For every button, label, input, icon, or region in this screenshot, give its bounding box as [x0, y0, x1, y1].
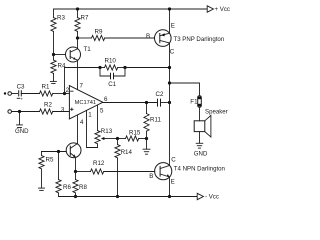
ground at input 2: [15, 112, 29, 136]
svg-text:E: E: [171, 178, 175, 185]
node junction R3/R4/T1 base: [52, 53, 55, 56]
svg-text:3: 3: [61, 106, 65, 113]
wire C3 to R1: [21, 93, 39, 95]
svg-text:T3 PNP Darlington: T3 PNP Darlington: [174, 36, 225, 43]
wire input 2: [12, 111, 40, 113]
svg-text:R15: R15: [129, 129, 141, 136]
node junction input2/gnd: [18, 110, 21, 113]
svg-text:R5: R5: [46, 157, 54, 164]
svg-text:- Vcc: - Vcc: [205, 194, 219, 201]
wire T2 emitter down: [75, 157, 77, 171]
transistor T4: [149, 156, 225, 185]
svg-text:R10: R10: [105, 58, 117, 65]
node junction rail/speaker branch: [168, 81, 171, 84]
svg-text:R2: R2: [44, 101, 52, 108]
wire T3 collector down rail: [169, 43, 171, 166]
power -Vcc arrow: [197, 193, 219, 200]
node junction R13 wiper/R14/R15: [116, 137, 119, 140]
svg-text:C: C: [171, 156, 176, 163]
svg-text:7: 7: [80, 82, 84, 89]
wire bottom supply rail: [59, 196, 197, 198]
svg-text:C2: C2: [156, 91, 164, 98]
resistor R12: [76, 160, 155, 174]
wire T3 emitter to rail: [169, 9, 171, 33]
ground at speaker: [194, 143, 208, 157]
svg-text:+ Vcc: + Vcc: [215, 6, 230, 13]
svg-text:MC1741: MC1741: [75, 100, 97, 106]
svg-text:R7: R7: [81, 14, 89, 21]
ground at R4: [50, 81, 56, 83]
svg-text:+: +: [20, 97, 23, 102]
svg-text:C3: C3: [17, 83, 25, 90]
resistor R8: [73, 172, 88, 197]
svg-text:R11: R11: [150, 117, 161, 124]
node junction T2 emitter/R8/R12: [74, 170, 77, 173]
svg-text:R12: R12: [93, 160, 105, 167]
node junction output/R11: [145, 101, 148, 104]
svg-text:T4 NPN Darlington: T4 NPN Darlington: [174, 165, 225, 172]
wire T2 base: [42, 151, 67, 153]
node junction rail/T3: [168, 7, 171, 10]
resistor R9: [78, 29, 155, 41]
wire top supply rail: [54, 8, 207, 10]
wire to pin 2: [65, 93, 70, 95]
svg-text:C1: C1: [108, 81, 116, 88]
resistor R7: [75, 7, 89, 38]
transistor T1: [54, 38, 92, 90]
node junction R7/T1/R9: [76, 36, 79, 39]
node junction rail/C2: [168, 101, 171, 104]
svg-text:F1: F1: [190, 99, 198, 106]
resistor R11: [144, 103, 162, 139]
wire fuse to speaker: [199, 107, 201, 121]
resistor R15: [118, 129, 147, 141]
op-amp U1 MC1741: [61, 82, 108, 125]
node junction pin2/feedback: [63, 92, 66, 95]
node junction bottom rail/T4: [168, 195, 171, 198]
node junction bottom rail/R8: [74, 195, 77, 198]
svg-text:R3: R3: [57, 14, 65, 21]
svg-text:T1: T1: [84, 46, 92, 53]
speaker SP1: [194, 108, 228, 137]
power +Vcc arrow: [207, 6, 230, 13]
node input terminal dot: [4, 92, 6, 94]
svg-text:E: E: [171, 23, 175, 30]
resistor R5: [39, 152, 54, 188]
capacitor C1 parallel branch: [100, 68, 125, 88]
node junction R10 left: [98, 66, 101, 69]
svg-text:C: C: [170, 49, 175, 56]
wire C2 to rail: [161, 102, 170, 104]
fuse F1: [190, 96, 201, 107]
node input terminal: [8, 92, 12, 96]
svg-text:GND: GND: [194, 150, 208, 157]
wire op-amp output: [103, 102, 158, 104]
wire speaker to ground: [199, 132, 201, 143]
svg-text:2: 2: [66, 87, 70, 94]
wire pin1 down: [87, 110, 98, 147]
capacitor C2: [156, 91, 164, 107]
svg-text:R13: R13: [101, 128, 113, 135]
node junction R10 right: [123, 66, 126, 69]
svg-text:R14: R14: [121, 149, 133, 156]
svg-text:5: 5: [100, 107, 104, 114]
resistor R14: [115, 139, 133, 197]
svg-text:R1: R1: [42, 84, 50, 91]
ground at R11: [143, 139, 150, 155]
svg-text:6: 6: [104, 96, 108, 103]
wire T2 collector to pin4: [77, 115, 79, 143]
svg-text:1: 1: [88, 112, 92, 119]
svg-text:B: B: [149, 173, 153, 180]
svg-text:R8: R8: [79, 184, 87, 191]
wire T4 emitter to rail: [169, 177, 171, 197]
wire input to C3: [12, 93, 18, 95]
node junction bottom rail/R14: [116, 195, 119, 198]
svg-text:R6: R6: [63, 184, 71, 191]
wire feedback from pin2 up: [64, 68, 66, 94]
svg-text:B: B: [146, 33, 150, 40]
wire pin5 down: [97, 105, 99, 131]
node input terminal 2: [8, 110, 12, 114]
svg-text:4: 4: [80, 119, 84, 126]
resistor R2: [40, 101, 70, 114]
node junction T2 base/R6: [57, 150, 60, 153]
svg-text:Speaker: Speaker: [205, 108, 228, 115]
resistor R4: [51, 55, 66, 82]
resistor R1: [40, 84, 65, 97]
resistor R3: [51, 9, 66, 55]
capacitor C3: [17, 83, 25, 101]
node junction R15/R11/gnd: [145, 137, 148, 140]
svg-text:GND: GND: [15, 128, 29, 135]
node junction rail/R10: [168, 66, 171, 69]
wire feedback horizontal: [65, 67, 101, 69]
transistor T3: [146, 23, 224, 56]
resistor R10: [100, 58, 125, 70]
wire R10 to output rail: [125, 67, 170, 69]
transistor T2: [66, 143, 81, 158]
resistor R13 trimmer: [95, 128, 118, 148]
svg-text:R9: R9: [95, 29, 103, 36]
ground at R5: [39, 188, 45, 190]
resistor R6: [56, 152, 72, 197]
wire to fuse: [170, 83, 200, 96]
